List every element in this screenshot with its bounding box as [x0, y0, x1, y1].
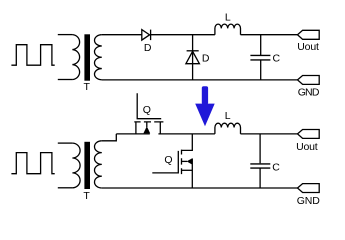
svg-text:GND: GND — [298, 86, 320, 98]
svg-text:C: C — [272, 161, 280, 173]
svg-text:L: L — [225, 12, 231, 24]
svg-text:GND: GND — [297, 195, 321, 207]
svg-text:T: T — [83, 190, 90, 202]
svg-text:Q: Q — [164, 154, 172, 166]
svg-text:D: D — [144, 42, 152, 54]
svg-text:T: T — [84, 81, 91, 93]
svg-text:C: C — [273, 52, 281, 64]
svg-text:Uout: Uout — [296, 141, 318, 153]
svg-text:Uout: Uout — [297, 41, 319, 53]
svg-text:Q: Q — [143, 104, 151, 116]
svg-text:L: L — [225, 110, 231, 122]
svg-text:D: D — [202, 52, 210, 64]
